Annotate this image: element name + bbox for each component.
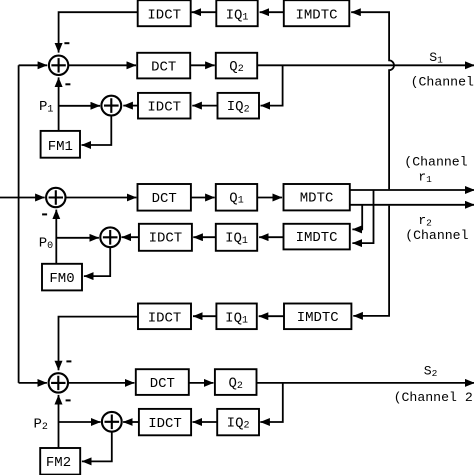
svg-text:IDCT: IDCT: [148, 416, 182, 432]
svg-text:P1: P1: [39, 99, 53, 116]
block IQ2 ch1: [218, 93, 260, 119]
wire small summer B0 to FM0: [84, 247, 110, 276]
plus in summer B2: [105, 415, 120, 430]
svg-text:DCT: DCT: [152, 191, 177, 207]
svg-text:IDCT: IDCT: [147, 99, 181, 115]
block IQ1 top row: [216, 0, 257, 26]
wire IQ1 to IDCT bottom row: [193, 315, 216, 317]
summer B0 small (central): [100, 227, 120, 247]
minus sign top summer lower input: [65, 83, 70, 85]
wire summer A1 to DCT: [68, 64, 136, 66]
minus sign bottom summer lower input: [66, 399, 71, 401]
wire r2 to bottom IMDTC bus: [353, 206, 389, 316]
svg-text:IMDTC: IMDTC: [295, 7, 337, 23]
wire top IQ1 to IDCT: [192, 11, 217, 13]
wire small summer B1 to FM1: [82, 116, 112, 146]
block IMDTC top row: [284, 0, 350, 26]
block IQ1 bottom row: [216, 304, 256, 330]
svg-text:r2: r2: [418, 213, 432, 228]
summer B1 small (channel1): [101, 96, 121, 116]
block FM2: [40, 448, 80, 475]
wire FM2 to bottom summer (negative): [58, 395, 60, 448]
svg-text:P2: P2: [33, 416, 47, 433]
wire top IMDTC to IQ1: [260, 11, 284, 13]
minus sign mid summer lower input: [42, 213, 47, 215]
wire FM1 to top summer (negative): [58, 77, 60, 131]
svg-text:(Channel 2): (Channel 2): [405, 228, 474, 243]
block Q2 ch2: [215, 369, 257, 395]
svg-text:IDCT: IDCT: [149, 231, 183, 247]
summer A0 (central): [46, 188, 65, 207]
svg-text:r1: r1: [418, 170, 432, 185]
wire IQ1 to IDCT mid: [193, 236, 216, 238]
wire top IDCT to top summer (negative): [59, 12, 138, 52]
minus sign top summer upper input: [64, 42, 69, 44]
block DCT ch2: [136, 369, 189, 395]
block IQ2 ch2: [217, 409, 259, 435]
svg-text:S2: S2: [424, 364, 438, 379]
wire S1 output: [257, 64, 474, 66]
plus in summer B0: [103, 230, 118, 245]
block IDCT ch2 low: [139, 409, 191, 435]
wire r2 output: [350, 204, 474, 206]
summer B2 small (channel2): [102, 412, 122, 432]
block IMDTC mid: [284, 224, 350, 250]
wire r1 branch to mid IMDTC lower input: [352, 190, 373, 243]
plus in summer B1: [104, 98, 119, 113]
block IDCT bottom row: [138, 304, 191, 330]
wire Q1 to MDTC: [257, 197, 282, 199]
svg-text:MDTC: MDTC: [300, 191, 334, 207]
wire IDCT row to bottom summer (negative): [59, 317, 139, 371]
svg-text:FM1: FM1: [48, 139, 73, 155]
wire IDCT to small summer ch1: [123, 105, 138, 107]
wire IQ2 to IDCT ch2: [193, 421, 218, 423]
block IDCT mid: [139, 224, 192, 251]
wire r2 branch to mid IMDTC upper input: [352, 205, 362, 230]
wire left input bus vertical: [18, 65, 20, 383]
plus in summer A2: [51, 376, 65, 390]
summer A1 (channel1): [49, 56, 68, 75]
svg-text:IMDTC: IMDTC: [296, 230, 338, 246]
svg-text:FM2: FM2: [46, 455, 71, 471]
svg-text:IDCT: IDCT: [148, 310, 182, 326]
wire bus to bottom summer: [19, 382, 47, 384]
block FM0: [42, 264, 82, 291]
svg-text:IMDTC: IMDTC: [297, 310, 339, 326]
block IQ1 mid: [216, 224, 257, 251]
block DCT ch0: [138, 184, 191, 211]
wire mid IMDTC to IQ1: [259, 236, 283, 238]
wire r1 output: [350, 189, 474, 191]
plus in summer A0: [49, 190, 63, 204]
wire bottom IMDTC to IQ1: [259, 315, 284, 317]
svg-text:(Channel 1): (Channel 1): [411, 74, 474, 89]
svg-text:(Channel 1): (Channel 1): [404, 154, 474, 169]
wire summer A2 to DCT: [68, 382, 134, 384]
svg-text:(Channel 2): (Channel 2): [394, 390, 474, 405]
wire DCT to Q2 ch2: [189, 382, 214, 384]
block IMDTC bottom row: [284, 304, 351, 330]
block MDTC: [284, 184, 350, 210]
wire Q2 branch to IQ2 ch1: [261, 65, 283, 105]
wire DCT to Q1: [191, 197, 215, 199]
minus sign bottom summer upper input: [66, 360, 71, 362]
svg-text:S1: S1: [429, 50, 443, 65]
block Q2 ch1: [216, 53, 257, 79]
svg-text:DCT: DCT: [150, 376, 175, 392]
svg-text:IDCT: IDCT: [147, 7, 181, 23]
block IDCT ch1 low: [138, 93, 191, 119]
wire bus to top summer: [19, 64, 48, 66]
block FM1: [41, 131, 80, 158]
wire P0 line: [56, 237, 99, 239]
block DCT ch1: [137, 53, 190, 79]
svg-text:DCT: DCT: [151, 59, 176, 75]
wire summer A0 to DCT: [66, 197, 137, 199]
wire P2 line: [59, 421, 101, 423]
wire DCT to Q2 ch1: [190, 64, 215, 66]
wire IDCT to small summer ch2: [123, 421, 139, 423]
wire main input to middle summer: [0, 197, 45, 199]
svg-text:P0: P0: [39, 236, 53, 253]
block IDCT top row: [138, 0, 191, 26]
wire r1 to top IMDTC (bus with hop over S1): [351, 12, 394, 189]
plus in summer A1: [51, 58, 65, 72]
wire S2 output: [257, 382, 474, 384]
summer A2 (channel2): [49, 373, 68, 392]
block Q1: [216, 184, 257, 211]
wire IDCT to small summer ch0: [122, 236, 139, 238]
wire Q2 branch to IQ2 ch2: [260, 383, 283, 422]
wire FM0 to mid summer (negative): [55, 210, 57, 264]
wire P1 line: [59, 105, 101, 107]
wire IQ2 to IDCT ch1: [192, 105, 217, 107]
svg-text:FM0: FM0: [49, 271, 74, 287]
wire small summer B2 to FM2: [82, 432, 112, 462]
